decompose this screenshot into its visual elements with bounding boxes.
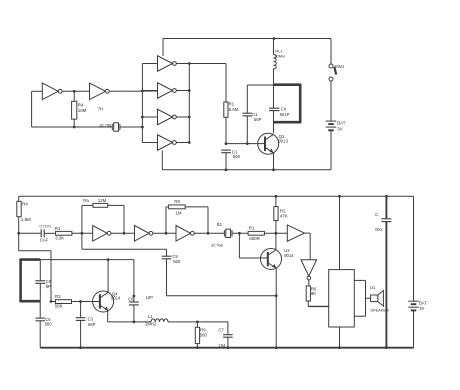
svg-text:C4: C4	[281, 106, 287, 111]
svg-text:BAT: BAT	[419, 301, 427, 306]
svg-text:7H: 7H	[98, 106, 104, 111]
svg-text:BAT: BAT	[337, 121, 346, 126]
svg-text:10P: 10P	[146, 295, 154, 300]
svg-text:104: 104	[218, 343, 226, 348]
svg-text:10MH: 10MH	[274, 53, 285, 58]
svg-text:CAF: CAF	[40, 238, 49, 243]
svg-text:3V: 3V	[337, 127, 342, 132]
svg-text:SW1: SW1	[335, 64, 345, 69]
svg-text:1.8M: 1.8M	[21, 217, 31, 222]
svg-text:3.3K: 3.3K	[55, 236, 64, 241]
svg-text:561P: 561P	[280, 112, 290, 117]
svg-text:R1: R1	[55, 226, 61, 231]
svg-text:650R: 650R	[249, 236, 260, 241]
svg-text:560: 560	[233, 154, 241, 159]
svg-text:10M: 10M	[78, 108, 87, 113]
svg-text:C3: C3	[88, 316, 94, 321]
svg-text:R3: R3	[55, 294, 61, 299]
svg-text:560: 560	[45, 322, 53, 327]
svg-text:C7: C7	[218, 328, 224, 333]
svg-text:9013: 9013	[278, 139, 288, 144]
svg-text:3V: 3V	[419, 306, 424, 311]
svg-text:B1: B1	[217, 222, 223, 227]
svg-text:U1: U1	[370, 285, 376, 290]
svg-text:56P: 56P	[88, 322, 96, 327]
svg-text:R4: R4	[22, 202, 28, 207]
svg-text:5.6M: 5.6M	[229, 107, 239, 112]
svg-text:001: 001	[375, 227, 383, 232]
svg-text:12M: 12M	[98, 198, 107, 203]
svg-text:47K: 47K	[280, 214, 288, 219]
svg-text:R1: R1	[249, 226, 255, 231]
svg-text:560: 560	[200, 332, 208, 337]
svg-text:L1: L1	[148, 314, 153, 319]
svg-text:C6: C6	[128, 297, 134, 302]
svg-text:C: C	[375, 212, 378, 217]
svg-text:56P: 56P	[254, 117, 262, 122]
svg-text:CY101: CY101	[39, 223, 51, 228]
svg-text:9014: 9014	[284, 253, 294, 258]
svg-text:R2: R2	[280, 208, 286, 213]
svg-text:Ra: Ra	[83, 198, 89, 203]
svg-text:8P: 8P	[46, 284, 51, 289]
svg-text:560: 560	[173, 259, 181, 264]
svg-text:32.768: 32.768	[211, 242, 223, 247]
svg-text:1M: 1M	[175, 211, 181, 216]
svg-text:SPEAKER: SPEAKER	[370, 308, 389, 313]
svg-text:9014: 9014	[111, 296, 121, 301]
svg-text:8K: 8K	[311, 291, 316, 296]
svg-text:R5: R5	[174, 199, 180, 204]
svg-text:1MH2: 1MH2	[145, 322, 157, 327]
svg-text:R1: R1	[229, 102, 235, 107]
svg-text:R4: R4	[78, 102, 84, 107]
svg-text:56K: 56K	[55, 304, 63, 309]
svg-text:32.768: 32.768	[99, 123, 111, 128]
